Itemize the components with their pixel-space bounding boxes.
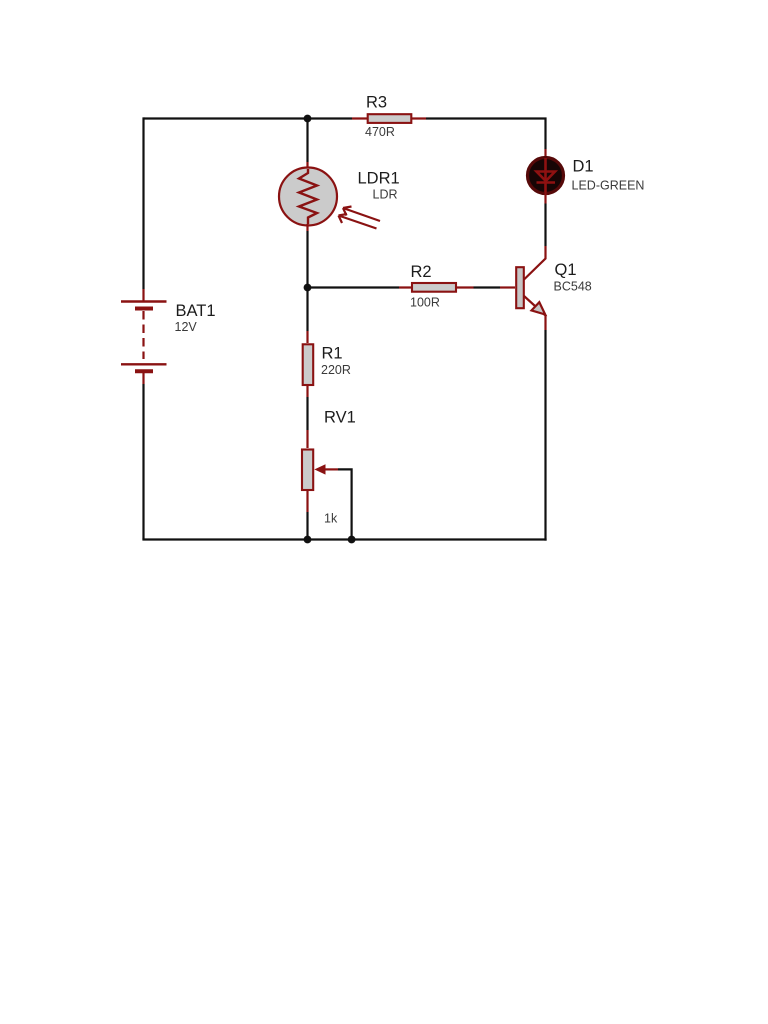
svg-text:100R: 100R — [410, 296, 440, 310]
wire: left rail from battery negative down to bottom-left corner — [142, 384, 144, 540]
wire: top rail right segment from R3 to top-right corner, down to LED anode — [426, 119, 546, 150]
emitter lead with arrow — [524, 296, 546, 330]
svg-text:R3: R3 — [366, 94, 387, 112]
wire: bottom rail — [142, 538, 546, 540]
wire: RV1 bottom terminal down to bottom rail — [306, 512, 308, 540]
node: junction dot bottom rail at RV1 bottom terminal — [304, 536, 312, 544]
svg-text:Q1: Q1 — [555, 261, 577, 279]
wire: left rail from top-left corner down to battery positive — [142, 117, 144, 289]
battery BAT1 — [121, 289, 167, 384]
wire: from LDR1 bottom to middle junction — [306, 231, 308, 288]
transistor Q1 (NPN BC548) — [500, 246, 546, 330]
svg-text:LDR1: LDR1 — [358, 170, 400, 188]
node: junction dot middle (LDR / R2 / R1) — [304, 284, 312, 292]
LDR light arrows — [339, 207, 381, 229]
wire: R1 to RV1 — [306, 397, 308, 430]
wire: base wire from middle junction to R2 — [308, 286, 400, 288]
svg-text:470R: 470R — [365, 125, 395, 139]
resistor R1 — [303, 331, 314, 397]
wire: top rail left segment from top-left corner to R3 left lead — [144, 117, 353, 119]
svg-text:R2: R2 — [411, 263, 432, 281]
svg-text:BC548: BC548 — [554, 280, 592, 294]
wire: Q1 emitter down to bottom rail — [544, 330, 546, 541]
wire: LED cathode down to Q1 collector — [544, 204, 546, 247]
svg-text:LDR: LDR — [373, 188, 398, 202]
wire: R2 to Q1 base — [474, 286, 501, 288]
wire: LDR branch from top junction down to LDR1 — [306, 119, 308, 163]
svg-text:R1: R1 — [322, 345, 343, 363]
node: junction dot bottom rail at wiper return — [348, 536, 356, 544]
LED D1 — [528, 149, 564, 204]
svg-text:RV1: RV1 — [324, 409, 356, 427]
wire: wiper wire right then down to bottom rail — [338, 469, 352, 539]
wiper arrow — [324, 468, 338, 470]
collector lead — [524, 246, 546, 280]
svg-text:BAT1: BAT1 — [176, 302, 216, 320]
resistor R3 — [352, 114, 426, 123]
svg-text:12V: 12V — [175, 320, 198, 334]
svg-text:1k: 1k — [324, 512, 338, 526]
node: junction dot top rail at LDR branch — [304, 115, 312, 123]
photoresistor LDR1 — [279, 162, 380, 231]
svg-text:220R: 220R — [321, 363, 351, 377]
potentiometer RV1 — [302, 430, 338, 512]
wire: middle junction down to R1 — [306, 288, 308, 332]
svg-text:D1: D1 — [573, 158, 594, 176]
svg-text:LED-GREEN: LED-GREEN — [572, 179, 645, 193]
resistor R2 — [399, 283, 474, 292]
